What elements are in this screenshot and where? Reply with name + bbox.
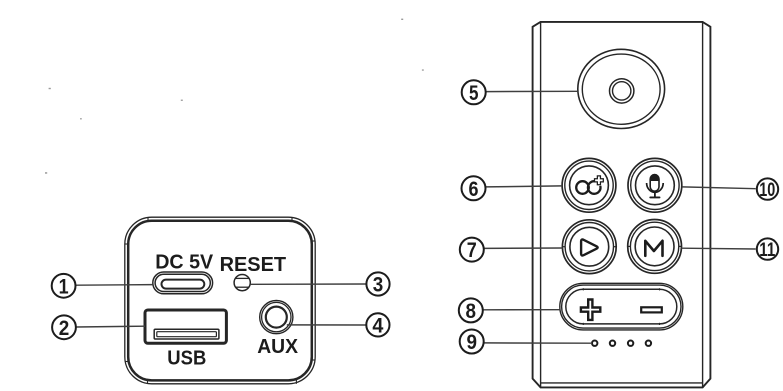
svg-text:6: 6 [469, 177, 479, 201]
svg-text:DC 5V: DC 5V [155, 251, 214, 273]
svg-text:RESET: RESET [220, 254, 287, 276]
svg-text:8: 8 [466, 299, 477, 323]
svg-text:USB: USB [167, 348, 206, 370]
svg-text:5: 5 [469, 81, 479, 105]
svg-text:3: 3 [373, 273, 384, 297]
svg-text:10: 10 [759, 180, 775, 201]
svg-text:9: 9 [466, 330, 477, 354]
svg-text:4: 4 [372, 314, 383, 338]
svg-text:2: 2 [59, 316, 70, 340]
svg-text:AUX: AUX [257, 336, 298, 358]
svg-text:11: 11 [759, 240, 775, 261]
svg-text:1: 1 [59, 274, 69, 298]
svg-text:7: 7 [467, 238, 477, 262]
